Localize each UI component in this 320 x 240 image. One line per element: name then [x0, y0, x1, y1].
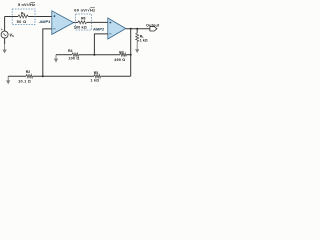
dashed R6 box — [76, 14, 92, 30]
svg-text:R4: R4 — [68, 49, 73, 53]
source polarity plus mark — [1, 29, 3, 31]
svg-text:499 Ω: 499 Ω — [114, 58, 125, 62]
resistor RS zigzag — [18, 15, 28, 18]
junction node R3 right — [130, 54, 132, 56]
wire feedback row R4-R3 — [56, 54, 72, 56]
dashed source box — [12, 9, 35, 25]
svg-text:60 nV/√Hz: 60 nV/√Hz — [74, 7, 95, 12]
ground arrow below VS — [3, 44, 7, 53]
wire top horizontal to AMP1 + — [5, 16, 18, 18]
op-amp AMP2 — [108, 18, 126, 39]
svg-text:5 nV/√Hz: 5 nV/√Hz — [18, 2, 35, 7]
wire AMP1 inverting feedback — [43, 29, 52, 76]
svg-text:1 kΩ: 1 kΩ — [140, 39, 148, 43]
svg-text:RS: RS — [21, 12, 26, 17]
svg-text:R2: R2 — [26, 70, 31, 74]
wire RL top — [136, 29, 138, 33]
ground arrow at R4 — [54, 55, 58, 63]
resistor R2 zigzag — [26, 75, 33, 78]
svg-text:R6: R6 — [81, 17, 86, 21]
wire AMP1 output — [74, 21, 78, 23]
wire bottom row — [8, 75, 26, 77]
svg-text:AMP1: AMP1 — [38, 19, 51, 24]
resistor R6 zigzag — [78, 21, 87, 24]
svg-text:R3: R3 — [119, 50, 124, 54]
wire Vs top vertical — [4, 17, 6, 32]
junction node RL tap — [136, 28, 138, 30]
junction node AMP1 feedback bottom — [42, 75, 44, 77]
junction node AMP2 inverting — [93, 54, 95, 56]
wire Vs bottom — [4, 38, 6, 44]
ground arrow bottom left — [6, 76, 10, 84]
svg-text:1 kΩ: 1 kΩ — [90, 78, 99, 82]
wire feedback vertical right — [130, 29, 132, 76]
wire AMP2 output — [126, 28, 150, 30]
svg-text:AMP2: AMP2 — [92, 27, 105, 32]
op-amp AMP1 — [52, 11, 74, 35]
svg-text:100 kΩ: 100 kΩ — [74, 25, 87, 29]
wire AMP2 inverting feedback — [94, 34, 107, 55]
resistor R3 zigzag — [120, 53, 126, 56]
resistor R4 zigzag — [72, 53, 79, 56]
svg-text:R5: R5 — [94, 71, 99, 75]
svg-text:10.1 Ω: 10.1 Ω — [18, 80, 31, 84]
svg-text:50 Ω: 50 Ω — [17, 19, 27, 24]
resistor RL zigzag — [136, 33, 139, 42]
label noise 5 nV/rtHz — [18, 2, 35, 7]
label noise 60 nV/rtHz — [74, 7, 95, 12]
ground arrow below RL — [135, 42, 139, 53]
svg-text:100 Ω: 100 Ω — [68, 57, 79, 61]
voltage source VS circle — [1, 31, 8, 38]
output terminal connector — [150, 27, 157, 31]
junction node feedback tap — [130, 28, 132, 30]
resistor R5 zigzag — [94, 75, 101, 78]
